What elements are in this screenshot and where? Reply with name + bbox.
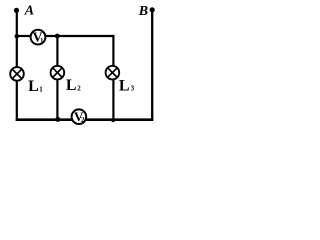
wire: drop to lamp L2 — [56, 36, 58, 67]
wire: bottom bus left segment — [16, 118, 72, 121]
wire: B vertical down — [151, 10, 153, 121]
svg-text:1: 1 — [39, 86, 43, 94]
wire: corner drop to lamp L3 — [112, 35, 114, 67]
terminal A — [14, 8, 19, 13]
svg-text:L: L — [66, 77, 77, 94]
svg-text:B: B — [138, 4, 148, 19]
svg-text:3: 3 — [131, 85, 135, 93]
terminal B — [150, 7, 155, 12]
node: junction below L2 — [55, 117, 60, 122]
wire: A vertical down to lamp L1 — [16, 10, 18, 67]
svg-text:L: L — [28, 78, 39, 95]
wire: L1 bottom drop — [16, 80, 18, 121]
svg-text:2: 2 — [81, 116, 85, 124]
svg-text:A: A — [24, 4, 34, 19]
svg-text:1: 1 — [40, 37, 44, 45]
node: junction below L3 — [111, 118, 115, 122]
svg-text:L: L — [119, 77, 130, 94]
node: junction above L2 — [55, 34, 60, 39]
voltmeter V1 — [31, 30, 46, 45]
lamp L3 — [106, 66, 120, 80]
wire: L2 bottom drop — [56, 79, 58, 121]
wire: top bus right segment from V1 to corner — [45, 35, 115, 37]
wire: top bus left segment to V1 — [17, 35, 32, 37]
svg-text:2: 2 — [77, 84, 81, 92]
wire: bottom bus right segment — [86, 118, 154, 121]
wire: L3 bottom drop — [112, 79, 114, 121]
lamp L1 — [10, 67, 24, 81]
voltmeter V2 — [72, 109, 87, 124]
node: junction on A wire — [14, 34, 19, 39]
lamp L2 — [51, 66, 65, 80]
